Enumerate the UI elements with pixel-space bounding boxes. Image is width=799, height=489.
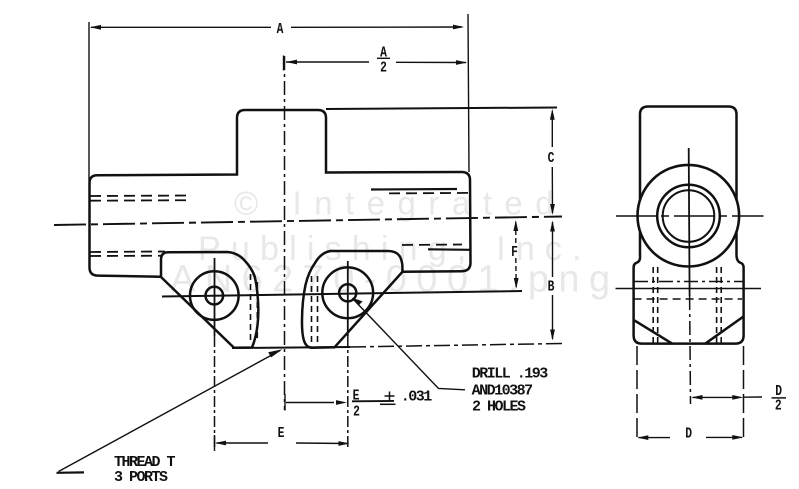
svg-text:C: C [548,150,555,167]
svg-text:D: D [685,425,692,442]
svg-text:AND10387: AND10387 [472,382,533,399]
svg-text:.031: .031 [401,388,433,405]
svg-text:3 PORTS: 3 PORTS [114,469,168,486]
svg-text:2 HOLES: 2 HOLES [472,398,526,415]
svg-text:DRILL .193: DRILL .193 [472,365,549,382]
svg-text:E: E [353,388,360,405]
svg-text:AN6270-0001.png: AN6270-0001.png [170,259,619,301]
svg-text:E: E [278,425,285,442]
svg-text:2: 2 [353,404,360,421]
svg-text:2: 2 [775,398,782,415]
svg-text:© Integrated: © Integrated [234,185,566,222]
svg-text:A: A [277,21,284,38]
svg-text:2: 2 [380,60,387,77]
